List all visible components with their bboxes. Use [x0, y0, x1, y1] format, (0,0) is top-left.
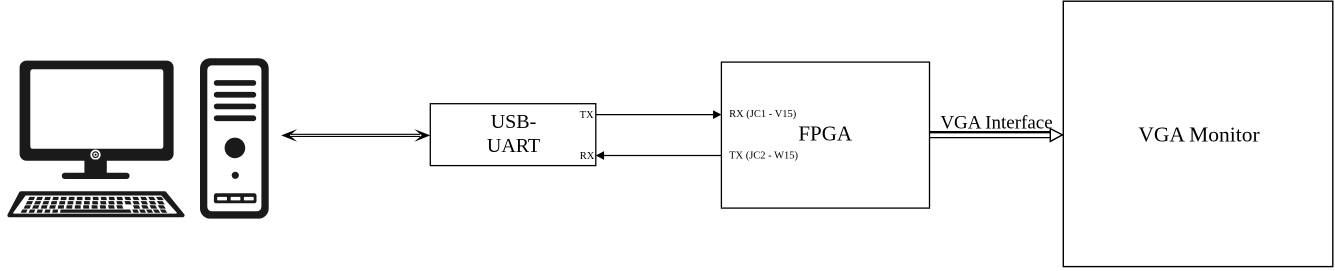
block U1: USB-UART	[430, 104, 596, 166]
open arrowhead	[1050, 129, 1062, 142]
svg-text:UART: UART	[487, 135, 540, 157]
svg-text:FPGA: FPGA	[798, 121, 853, 145]
svg-text:TX: TX	[580, 110, 594, 121]
tower power button	[225, 138, 246, 159]
monitor body	[20, 61, 174, 161]
host computer icon	[20, 61, 174, 179]
block U2: FPGA	[721, 62, 929, 208]
tower small button	[232, 172, 239, 179]
svg-text:RX (JC1 - V15): RX (JC1 - V15)	[729, 109, 797, 120]
svg-text:TX (JC2 - W15): TX (JC2 - W15)	[729, 151, 798, 162]
monitor screen	[30, 69, 163, 149]
monitor base	[62, 173, 130, 179]
block VGA Monitor	[1063, 1, 1333, 266]
wire RX: FPGA to USB-UART	[596, 151, 722, 160]
keyboard keys	[21, 197, 168, 213]
svg-text:VGA Monitor: VGA Monitor	[1138, 122, 1259, 146]
svg-text:RX: RX	[580, 151, 595, 162]
keyboard	[9, 193, 182, 215]
tower vents	[214, 80, 256, 86]
arrowhead right	[414, 129, 430, 142]
tower drive slot	[214, 193, 257, 203]
wire TX: USB-UART to FPGA	[596, 110, 722, 119]
monitor stand	[84, 160, 106, 175]
wire: VGA interface bus FPGA to monitor	[930, 112, 1063, 141]
computer tower	[200, 58, 269, 218]
monitor webcam dot	[90, 150, 100, 160]
svg-text:VGA Interface: VGA Interface	[940, 112, 1052, 133]
arrowhead left	[281, 129, 297, 142]
wire: bidirectional link PC to USB-UART (double line)	[281, 129, 430, 142]
svg-text:USB-: USB-	[491, 111, 537, 133]
